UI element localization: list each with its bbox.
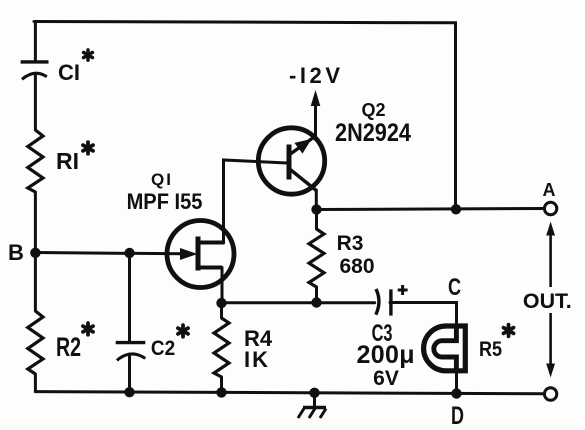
svg-text:OUT.: OUT.: [523, 290, 572, 313]
svg-text:680: 680: [339, 255, 374, 278]
svg-text:R3: R3: [337, 232, 364, 255]
svg-text:QI: QI: [151, 170, 171, 189]
svg-text:D: D: [451, 401, 464, 430]
svg-text:C2: C2: [151, 337, 175, 360]
svg-text:R5: R5: [479, 338, 502, 362]
svg-text:200μ: 200μ: [357, 341, 415, 369]
svg-text:B: B: [8, 240, 24, 265]
svg-text:R2: R2: [56, 332, 81, 362]
svg-text:-I2V: -I2V: [289, 63, 340, 88]
svg-text:CI: CI: [58, 60, 80, 85]
svg-text:IK: IK: [244, 347, 268, 372]
svg-text:6V: 6V: [373, 367, 399, 390]
svg-text:RI: RI: [56, 148, 79, 174]
svg-text:A: A: [543, 180, 556, 200]
svg-text:2N2924: 2N2924: [335, 119, 411, 147]
svg-text:MPF I55: MPF I55: [127, 190, 203, 214]
svg-text:C: C: [448, 275, 461, 301]
svg-text:Q2: Q2: [361, 100, 385, 120]
